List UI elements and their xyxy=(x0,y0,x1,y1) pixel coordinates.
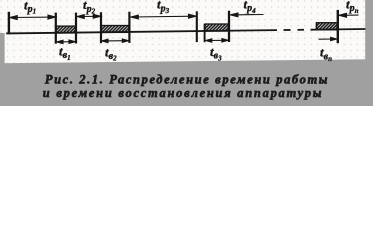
svg-text:и времени восстановления аппар: и времени восстановления аппаратуры xyxy=(43,86,323,100)
svg-text:Рис. 2.1. Распределение времен: Рис. 2.1. Распределение времени работы xyxy=(45,73,329,87)
